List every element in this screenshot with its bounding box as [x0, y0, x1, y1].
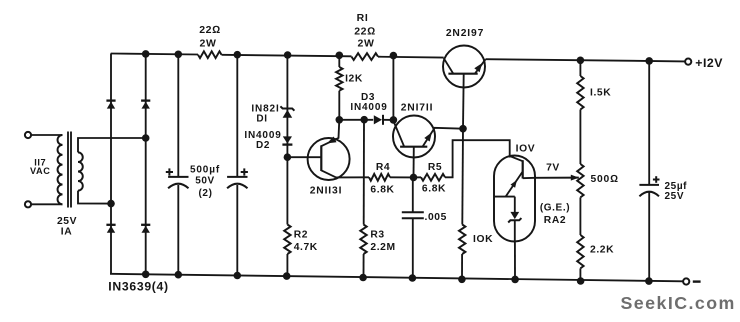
resistor 1.5K [577, 76, 583, 110]
wire secondary bottom lead [78, 191, 111, 204]
resistor R1 [352, 53, 379, 60]
wire D3 anode [339, 119, 373, 121]
wire Q3 collector [444, 58, 454, 73]
diode bridge top-left [106, 101, 115, 109]
wire bottom rail [110, 274, 683, 282]
transistor Q1 2N1131 body [308, 138, 350, 180]
svg-text:SeekIC.com: SeekIC.com [621, 293, 736, 313]
label 25uf [665, 181, 688, 192]
svg-text:RI: RI [357, 12, 369, 24]
label 25V out [665, 191, 685, 202]
zener D1 IN821 [280, 106, 294, 117]
node C4 top [645, 57, 653, 65]
wire Q3 base lead [462, 74, 465, 129]
transistor Q2 base bar [400, 146, 427, 148]
label 50V [195, 176, 215, 187]
wire R3 column [363, 120, 366, 278]
resistor 12K [336, 67, 342, 91]
wire secondary top lead [78, 138, 146, 152]
wire Q2 emitter [423, 128, 464, 147]
label R3 [370, 230, 384, 241]
node collector feed top [390, 52, 398, 60]
svg-text:IOV: IOV [516, 144, 536, 155]
transformer T1 primary winding [58, 135, 63, 204]
node bridge right top [142, 50, 150, 58]
svg-text:D2: D2 [256, 140, 270, 151]
label .005 [425, 212, 447, 223]
terminal minus [683, 278, 689, 284]
label D3 IN4009 [350, 102, 387, 113]
wire C2 column [236, 55, 238, 276]
resistor 22 ohm 2W [198, 51, 222, 58]
label (2) [198, 188, 212, 199]
diode D2 IN4009 [282, 136, 292, 144]
wire bridge left leg [110, 54, 112, 274]
terminal AC input bottom [25, 201, 31, 207]
capacitor C4 25uF [639, 185, 659, 196]
label RA2 [544, 215, 566, 226]
wire C3 column [412, 177, 414, 278]
svg-text:IN3639(4): IN3639(4) [108, 279, 169, 293]
label 25V [57, 216, 77, 227]
wire Q1 base lead [287, 156, 321, 158]
label 2W [200, 37, 217, 49]
transistor Q1 base bar [320, 145, 322, 171]
RA2 base lead out [523, 177, 535, 179]
wire AC top lead [31, 134, 62, 136]
label 10K [473, 234, 493, 245]
svg-text:I.5K: I.5K [590, 87, 611, 98]
svg-text:500µf: 500µf [190, 165, 220, 176]
capacitor C3 .005 plates [402, 212, 424, 218]
label 2N2197 [446, 28, 484, 39]
wire RA2 cathode column [514, 241, 516, 279]
svg-text:D3: D3 [361, 92, 375, 103]
wire R5 left [414, 176, 422, 178]
node R3 top junction [360, 116, 368, 124]
node C2 bottom [234, 272, 242, 280]
label D1 [256, 114, 267, 125]
label D2 IN4009 [244, 130, 281, 141]
RA2 emitter [506, 172, 523, 197]
node 12K top [336, 52, 344, 60]
label R1 22 ohm [354, 25, 376, 37]
label R1 2W [358, 37, 375, 49]
wire collector feed vertical [392, 56, 394, 120]
label VAC [30, 166, 51, 176]
node base junction 2N1131 [284, 153, 292, 161]
resistor R4 6.8K [369, 174, 390, 181]
polarity + C4 [653, 176, 660, 183]
svg-text:2.2K: 2.2K [590, 245, 614, 256]
node 12K bottom junction [336, 116, 344, 124]
diode bridge bottom-left [106, 225, 115, 233]
svg-text:VAC: VAC [30, 166, 51, 176]
label 117 [34, 157, 46, 167]
arrow Q1 emitter PNP [327, 137, 337, 144]
wire 7V wiper [535, 175, 579, 181]
svg-text:2W: 2W [200, 37, 217, 49]
tube RA2 envelope [494, 156, 535, 242]
wire R4 right [390, 176, 414, 178]
label IN3639(4) [108, 279, 169, 293]
transistor Q2 2N1711 body [393, 116, 435, 158]
label 22 ohm [199, 24, 221, 36]
label R5 6.8K [422, 184, 446, 195]
resistor 2.2K [577, 235, 583, 268]
arrow Q3 emitter NPN [474, 63, 482, 72]
svg-text:2.2M: 2.2M [370, 242, 395, 253]
node 10K bottom [458, 276, 466, 284]
node C1 top [175, 51, 183, 59]
wire Q2 collector [393, 120, 404, 146]
wire top raw rail [111, 54, 444, 58]
diode bridge top-right [141, 101, 150, 109]
diode bridge bottom-right [141, 225, 150, 233]
wire Q2 base lead [413, 147, 415, 178]
transistor Q3 base bar [448, 73, 477, 75]
RA2 internal bus [495, 196, 515, 198]
node R2 bottom [283, 272, 291, 280]
svg-text:IOK: IOK [473, 234, 493, 245]
svg-text:R2: R2 [294, 230, 308, 241]
svg-text:(2): (2) [198, 188, 212, 199]
svg-text:6.8K: 6.8K [370, 184, 394, 195]
RA2 base bar [522, 160, 524, 178]
wire +12V rail [486, 59, 685, 61]
terminal +12V [685, 59, 691, 65]
node driver emitter junction [459, 125, 467, 133]
svg-text:2NI7II: 2NI7II [401, 103, 434, 114]
label 500 ohm [591, 174, 619, 185]
wire AC bottom lead [31, 203, 62, 205]
label 2.2K [590, 245, 614, 256]
label 12K [345, 73, 363, 84]
transformer T1 secondary winding [78, 152, 83, 190]
wire R4 left [336, 176, 369, 178]
svg-text:(G.E.): (G.E.) [540, 203, 570, 214]
wire Q3 emitter [475, 59, 486, 73]
wire bridge right leg [145, 54, 147, 274]
node R4 R5 junction [410, 174, 418, 182]
node C3 bottom [409, 274, 417, 282]
svg-text:.005: .005 [425, 212, 447, 223]
label GE [540, 203, 570, 214]
resistor R5 6.8K [421, 174, 445, 181]
resistor R2 4.7K [284, 225, 290, 255]
svg-text:RA2: RA2 [544, 215, 566, 226]
svg-text:+I2V: +I2V [695, 56, 723, 70]
zener RA2 internal [508, 212, 521, 223]
polarity + C2 [241, 168, 248, 175]
polarity + C1 [166, 168, 173, 175]
node bridge right bottom [142, 271, 150, 279]
svg-text:R3: R3 [370, 230, 384, 241]
svg-text:R4: R4 [376, 162, 390, 173]
label 7V [546, 163, 560, 174]
svg-text:I2K: I2K [345, 73, 363, 84]
svg-text:DI: DI [256, 114, 267, 125]
diode D3 IN4009 [374, 115, 383, 125]
resistor R3 2.2M [360, 225, 366, 255]
wire R5 to RA2 top [445, 140, 510, 177]
svg-text:IN4009: IN4009 [350, 102, 387, 113]
wire D1D2R2 column [286, 55, 288, 276]
node secondary-top junction [142, 134, 150, 142]
svg-text:7V: 7V [546, 163, 560, 174]
label R4 6.8K [370, 184, 394, 195]
wire RA2 zener bottom [514, 220, 516, 241]
node secondary-bottom junction [107, 200, 115, 208]
label D3 [361, 92, 375, 103]
label D2 [256, 140, 270, 151]
svg-text:25V: 25V [57, 216, 77, 227]
label minus [693, 280, 701, 282]
label +12V [695, 56, 723, 70]
arrow RA2 emitter [511, 180, 518, 188]
node RA2 bottom [511, 276, 519, 284]
label R2 4.7K [294, 242, 318, 253]
label R3 2.2M [370, 242, 395, 253]
label 2N1131 [310, 185, 343, 196]
label R5 [428, 162, 442, 173]
node 2N1711 collector junction [390, 116, 398, 124]
label 10V [516, 144, 536, 155]
svg-text:22Ω: 22Ω [199, 24, 221, 36]
node pot column bottom [577, 277, 585, 285]
transistor Q3 2N2197 body [443, 46, 485, 88]
node R3 bottom [359, 274, 367, 282]
wire RA2 zener top [514, 197, 516, 213]
potentiometer 500 ohm [577, 164, 583, 197]
label IN821 [251, 104, 279, 115]
node pot column top [577, 57, 585, 65]
wire 12K column [338, 55, 340, 120]
svg-text:2W: 2W [358, 37, 375, 49]
transformer T1 core [68, 132, 71, 208]
node D1 top [284, 51, 292, 59]
watermark SeekIC.com [621, 293, 736, 313]
resistor 10K [459, 225, 465, 255]
node C1 bottom [175, 271, 183, 279]
capacitor C2 500uF [227, 177, 247, 188]
svg-text:25V: 25V [665, 191, 685, 202]
arrow Q2 emitter NPN [424, 132, 432, 141]
wire C1 column [177, 54, 179, 274]
wire Q1 emitter [321, 120, 339, 146]
svg-text:2N2I97: 2N2I97 [446, 28, 484, 39]
svg-text:4.7K: 4.7K [294, 242, 318, 253]
svg-text:R5: R5 [428, 162, 442, 173]
label 1.5K [590, 87, 611, 98]
node C4 bottom [645, 277, 653, 285]
wire pot column [579, 60, 581, 281]
svg-text:IA: IA [61, 226, 73, 237]
wire Q1 collector [321, 170, 336, 177]
svg-text:500Ω: 500Ω [591, 174, 619, 185]
node C2 top [234, 51, 242, 59]
svg-text:2NII3I: 2NII3I [310, 185, 343, 196]
RA2 collector lead [510, 156, 523, 161]
label 500uf [190, 165, 220, 176]
label 2N1711 [401, 103, 434, 114]
label R1 [357, 12, 369, 24]
wire C4 column [648, 61, 650, 281]
wire 10K column [462, 129, 463, 280]
label R4 [376, 162, 390, 173]
label R2 [294, 230, 308, 241]
capacitor C1 500uF [168, 177, 188, 188]
wire D3 cathode [383, 119, 393, 121]
svg-text:22Ω: 22Ω [354, 25, 376, 37]
terminal AC input top [25, 132, 31, 138]
label 1A [61, 226, 73, 237]
svg-text:50V: 50V [195, 176, 215, 187]
svg-text:6.8K: 6.8K [422, 184, 446, 195]
